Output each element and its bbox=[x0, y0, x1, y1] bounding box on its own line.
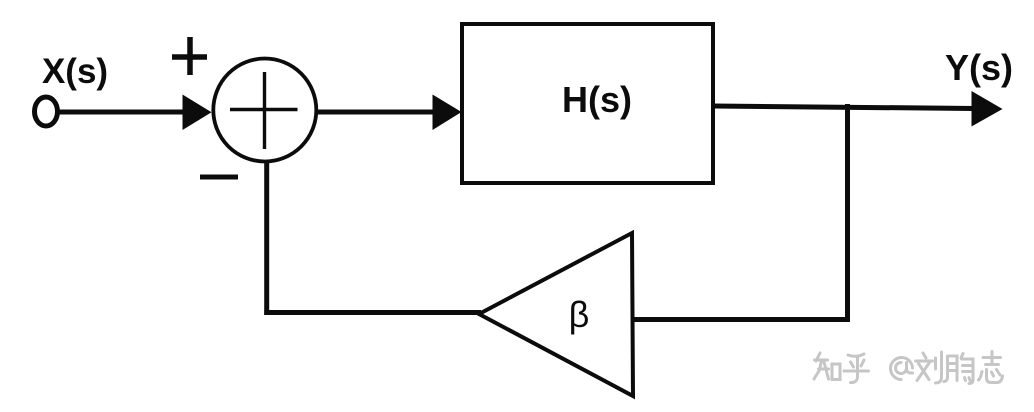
node X(s) input terminal bbox=[35, 97, 58, 126]
svg-text:β: β bbox=[569, 294, 590, 335]
知 bbox=[814, 353, 829, 379]
鹏 bbox=[944, 354, 973, 384]
wire branch to beta amplifier bbox=[634, 317, 850, 322]
志 bbox=[979, 352, 1003, 383]
svg-text:H(s): H(s) bbox=[562, 79, 632, 120]
minus label (below summing junction) bbox=[200, 175, 238, 180]
plus label (above summing junction) bbox=[172, 37, 207, 75]
wire summing junction down to feedback bbox=[264, 161, 269, 315]
summing junction U1 bbox=[213, 59, 316, 162]
block H(s) bbox=[462, 24, 713, 183]
wire H(s) to output arrow bbox=[713, 106, 974, 109]
wire branch down from output bbox=[845, 104, 850, 322]
wire summing junction to H(s) bbox=[317, 110, 435, 115]
wire input to summing junction bbox=[59, 110, 186, 115]
乎 bbox=[844, 354, 869, 383]
svg-text:Y(s): Y(s) bbox=[945, 47, 1013, 88]
刘 bbox=[916, 352, 942, 383]
@ bbox=[891, 358, 913, 380]
feedback wire beta to summing junction bbox=[264, 310, 481, 315]
svg-text:X(s): X(s) bbox=[42, 52, 108, 91]
watermark 知乎 @刘鹏志 (drawn strokes) bbox=[814, 352, 1003, 384]
amplifier beta bbox=[479, 233, 633, 396]
